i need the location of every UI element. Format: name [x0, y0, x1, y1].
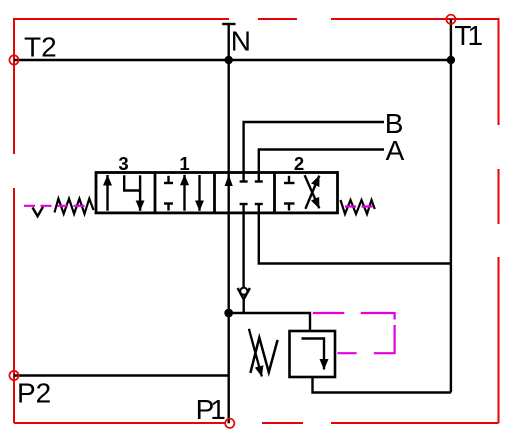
spring left [55, 199, 94, 214]
port ring P2 [9, 371, 18, 380]
svg-text:T1: T1 [454, 20, 482, 51]
wire relief valve outlet [313, 377, 451, 393]
node N tank cap [222, 23, 235, 25]
valve neutral position symbols [225, 175, 233, 186]
valve position 3 arrows [108, 175, 141, 211]
svg-text:1: 1 [179, 153, 189, 174]
svg-text:T2: T2 [24, 32, 57, 63]
node junction dot P1 [224, 309, 233, 318]
valve position 2 symbols [284, 175, 319, 210]
svg-text:2: 2 [294, 153, 304, 174]
valve position 1 symbols [164, 175, 200, 211]
node junction dot N/T2 [225, 56, 233, 64]
spring right [341, 200, 375, 214]
svg-text:3: 3 [118, 153, 128, 174]
svg-text:P2: P2 [17, 378, 51, 409]
wire T2 rail [14, 59, 451, 61]
wire B [244, 122, 384, 182]
port ring T1 [446, 15, 455, 24]
wire P1 junction to relief valve [229, 313, 310, 331]
relief valve spring [250, 338, 277, 373]
valve V1 body [96, 173, 338, 213]
svg-text:P1: P1 [196, 394, 226, 425]
relief valve RV1 internal path [302, 339, 325, 370]
wire A [259, 150, 384, 182]
check valve CV1 [238, 288, 250, 299]
wire A-side return to T1 [259, 204, 451, 264]
wire T1 vertical [450, 19, 452, 392]
wire N vertical (P line) [227, 24, 229, 423]
port ring P1 [225, 419, 234, 428]
pilot line right (magenta dashed) [345, 205, 377, 207]
svg-text:A: A [386, 135, 405, 166]
lever symbol left [33, 207, 44, 216]
wire P2 [14, 374, 229, 376]
port ring T2 [9, 55, 18, 64]
pilot line relief (magenta dashed) [313, 313, 395, 353]
svg-text:N: N [231, 25, 251, 56]
relief valve RV1 body [290, 331, 336, 377]
pilot line left (magenta dashed) [24, 205, 89, 207]
node junction dot T1/T2 [447, 56, 455, 64]
wire valve to check valve [242, 204, 244, 288]
relief valve adjust arrow [249, 329, 262, 377]
